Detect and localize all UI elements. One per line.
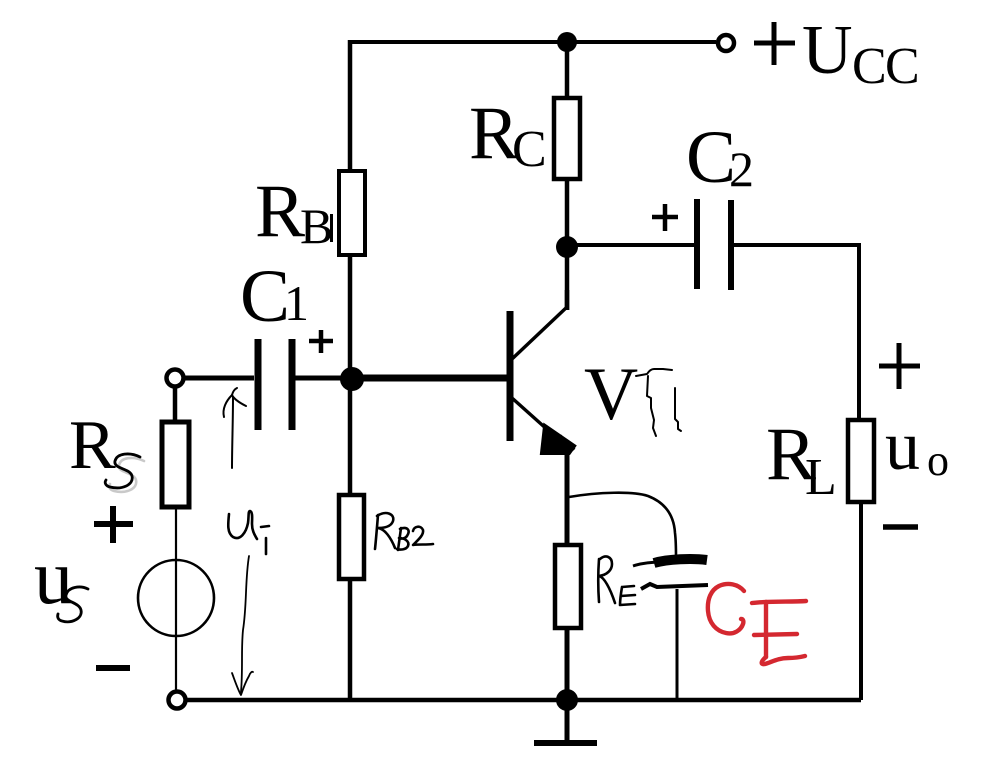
- wire input terminal to C1 left plate: [184, 376, 254, 381]
- resistor RE body: [555, 545, 581, 628]
- wire C2 right plate to right rail corner and down to RL: [734, 245, 859, 422]
- wire from base node down to RB2: [348, 379, 353, 497]
- label VT1 handwritten T1: [636, 369, 681, 436]
- wire emitter down to RE: [565, 447, 570, 546]
- capacitor C2 left plate: [694, 199, 700, 289]
- terminal input open circle: [167, 370, 184, 387]
- label RL: [766, 413, 837, 506]
- capacitor C2 right plate: [728, 200, 734, 290]
- capacitor C1 right plate: [289, 339, 296, 430]
- label C1: [240, 255, 309, 338]
- label CE handwritten red: [708, 584, 806, 664]
- wire RL down to ground rail: [859, 502, 863, 700]
- wire CE bottom plate down to ground rail: [676, 589, 679, 700]
- label VT1: [584, 353, 638, 436]
- source us circle symbol: [138, 560, 214, 636]
- label minus polarity of uo: [883, 524, 918, 530]
- resistor RC body: [554, 98, 580, 179]
- capacitor C1 left plate: [255, 339, 262, 430]
- transistor VT1 emitter stroke: [512, 398, 550, 432]
- svg-text:B: B: [300, 198, 333, 254]
- wire collector node to C2 left plate: [567, 243, 694, 247]
- svg-text:C: C: [512, 121, 547, 178]
- transistor VT1 collector stroke: [512, 307, 567, 359]
- label +Ucc: [754, 12, 920, 95]
- label plus polarity of us: [94, 506, 133, 543]
- wire from top rail junction down to RC: [565, 42, 570, 100]
- ground symbol stem: [565, 700, 570, 742]
- wire input terminal down to RS: [173, 386, 178, 423]
- svg-text:o: o: [927, 436, 949, 485]
- transistor VT1 base bar: [507, 311, 514, 441]
- ground symbol bar: [534, 740, 597, 746]
- label us printed u: [34, 533, 73, 620]
- wire emitter branch curve to CE: [569, 493, 676, 557]
- resistor RS body: [162, 422, 189, 507]
- label uo: [885, 408, 949, 485]
- label RB1: [255, 170, 333, 254]
- label plus polarity of C1: [309, 330, 333, 353]
- svg-text:C: C: [885, 38, 920, 95]
- junction dot collector node: [556, 236, 578, 258]
- svg-text:C: C: [852, 38, 887, 95]
- label us handwritten s: [58, 587, 88, 622]
- wire base node to transistor base: [352, 375, 508, 382]
- terminal +Ucc open circle: [718, 35, 734, 51]
- svg-text:C: C: [240, 255, 290, 338]
- label plus polarity of uo: [879, 343, 920, 389]
- svg-text:u: u: [885, 408, 920, 485]
- svg-text:R: R: [69, 407, 116, 484]
- wire from RB2 down to ground rail: [348, 579, 353, 700]
- label ui handwritten: [228, 511, 269, 554]
- svg-text:V: V: [584, 353, 638, 436]
- svg-text:R: R: [255, 170, 305, 253]
- label C2: [686, 116, 754, 199]
- capacitor CE bottom plate freehand: [641, 584, 708, 589]
- transistor VT1 emitter arrowhead: [542, 426, 574, 453]
- label RS printed R: [69, 407, 116, 484]
- label RB2 handwritten: [375, 513, 433, 550]
- label RC: [469, 92, 547, 178]
- wire from RB1 down to base node: [348, 255, 353, 380]
- ground rail bottom wire: [186, 698, 861, 703]
- svg-text:u: u: [34, 533, 73, 620]
- label plus polarity of C2: [652, 204, 678, 231]
- terminal bottom-left open circle: [169, 692, 186, 709]
- arrow ui lower segment pointing down to ground rail: [232, 556, 253, 695]
- junction dot base node: [340, 367, 364, 391]
- label RE handwritten: [598, 557, 635, 605]
- resistor RL body: [848, 420, 874, 502]
- wire top rail from RB1 corner to +Ucc terminal: [350, 40, 716, 44]
- wire collector diagonal to RC node: [565, 290, 570, 310]
- svg-text:L: L: [805, 449, 837, 506]
- svg-text:U: U: [802, 12, 853, 89]
- wire C1 right plate to base node: [295, 376, 352, 381]
- resistor RB1 body: [339, 171, 365, 255]
- capacitor CE top plate freehand: [633, 559, 707, 566]
- arrow ui upper segment pointing up: [223, 388, 246, 468]
- wire vertical from top rail down to RB1: [348, 40, 353, 173]
- wire from RC down to collector node: [565, 179, 570, 310]
- wire RS down to source circle (thin): [175, 507, 177, 691]
- label minus polarity of us: [96, 665, 130, 671]
- svg-text:1: 1: [284, 275, 309, 331]
- node junction dot on top rail: [557, 32, 577, 52]
- junction dot ground rail emitter: [556, 689, 578, 711]
- wire RE down to ground rail junction: [565, 628, 570, 700]
- svg-text:2: 2: [729, 141, 754, 197]
- label RS handwritten S with shadow: [105, 454, 144, 492]
- resistor RB2 body: [339, 495, 364, 579]
